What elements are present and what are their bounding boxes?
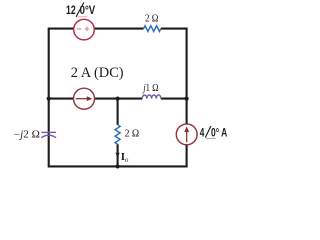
voltage source V1 minus sign — [77, 28, 81, 30]
node junction left — [47, 97, 51, 101]
voltage source V1 plus sign — [85, 27, 90, 32]
svg-text:2 Ω: 2 Ω — [125, 128, 140, 139]
wire middle segment between current source and inductor — [94, 98, 142, 100]
current source I2 arrow — [186, 130, 188, 142]
resistor R2 2ohm vertical zigzag — [115, 125, 120, 144]
wire top-right segment with right vertical — [161, 29, 187, 125]
resistor R1 2ohm top zigzag — [144, 26, 161, 32]
current source I1 arrow — [76, 98, 88, 100]
svg-text:−j2 Ω: −j2 Ω — [14, 130, 40, 141]
wire right-bottom segment — [49, 137, 187, 166]
wire middle-right segment — [161, 98, 187, 100]
svg-text:j1 Ω: j1 Ω — [142, 83, 159, 94]
capacitor C1 -j2ohm curved plate — [41, 135, 56, 138]
inductor L1 j1ohm — [142, 95, 161, 99]
svg-text:12: 12 — [66, 3, 76, 17]
wire middle branch lower — [117, 144, 119, 166]
svg-text:0° A: 0° A — [211, 125, 227, 139]
wire top-left segment — [49, 29, 74, 99]
svg-text:2 A (DC): 2 A (DC) — [71, 64, 124, 81]
voltage source V1 circle — [74, 19, 95, 40]
wire middle branch upper — [117, 99, 119, 125]
svg-text:o: o — [125, 156, 129, 164]
svg-text:4: 4 — [200, 125, 205, 139]
node junction right — [185, 97, 189, 101]
wire between capacitor plates — [48, 132, 50, 138]
node junction middle — [116, 97, 120, 101]
current source I1 2A circle — [74, 88, 95, 109]
label 4 angle 0 A — [200, 125, 228, 139]
wire middle-left segment — [49, 98, 74, 100]
svg-text:2 Ω: 2 Ω — [145, 13, 159, 24]
wire left-capacitor upper segment — [48, 99, 50, 132]
label 12 angle 0 V — [66, 2, 96, 17]
current source I2 4A circle — [176, 124, 197, 145]
node junction bottom — [116, 164, 120, 168]
current Io arrowhead — [116, 153, 120, 158]
wire top middle segment — [94, 28, 143, 30]
capacitor C1 -j2ohm top plate — [42, 131, 57, 133]
